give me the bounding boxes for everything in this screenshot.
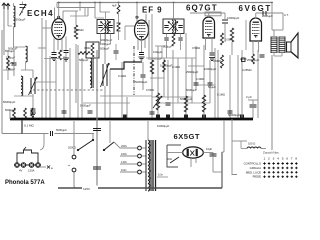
terminal 2 — [21, 163, 26, 168]
svg-text:7: 7 — [291, 157, 293, 161]
wire horizontals mid — [152, 96, 192, 98]
svg-text:10000μμF: 10000μμF — [160, 64, 173, 68]
svg-text:Zoccoli Nos.: Zoccoli Nos. — [263, 151, 280, 155]
capacitor EF9 cathode — [139, 52, 144, 54]
wire — [271, 3, 273, 31]
capacitor 125pF — [12, 62, 17, 64]
wire — [172, 50, 174, 118]
terminal strip bracket — [17, 150, 38, 163]
svg-text:10000μμF: 10000μμF — [157, 124, 170, 128]
small box — [242, 58, 246, 62]
wire — [83, 102, 130, 104]
wire top B+ bus — [57, 2, 272, 4]
wire — [69, 48, 71, 118]
svg-text:0.5MΩ: 0.5MΩ — [146, 88, 154, 92]
wire — [49, 56, 51, 118]
wire — [167, 60, 169, 100]
svg-text:MED. LUCE: MED. LUCE — [246, 170, 261, 174]
ground bus heavy — [10, 118, 253, 121]
solder blob — [240, 115, 244, 119]
svg-text:3: 3 — [273, 157, 275, 161]
wire — [148, 20, 150, 60]
svg-text:A.T.: A.T. — [284, 13, 289, 17]
wire top drops — [79, 3, 81, 12]
wire ECH4 anode leads — [54, 8, 56, 20]
trimmer capacitor 500pF — [20, 4, 26, 6]
svg-text:GRIGLIA: GRIGLIA — [250, 166, 261, 170]
svg-text:120A: 120A — [28, 169, 35, 173]
terminal 3 — [29, 163, 34, 168]
wire — [223, 120, 225, 152]
svg-text:0.05MΩ: 0.05MΩ — [74, 28, 83, 32]
svg-text:0.5MΩ: 0.5MΩ — [213, 59, 221, 63]
wire — [77, 45, 79, 118]
svg-text:140v: 140v — [121, 160, 127, 164]
junction dots on top bus — [58, 2, 60, 4]
capacitor 10000pF coupling — [222, 19, 228, 21]
antenna coil L1 — [14, 6, 16, 16]
wire IFT1 leads — [100, 34, 102, 45]
svg-text:110v: 110v — [121, 168, 127, 172]
svg-text:50000μμF: 50000μμF — [228, 113, 241, 117]
wire — [163, 58, 165, 97]
solder blob — [184, 115, 188, 119]
wire — [245, 20, 247, 50]
variable capacitor tuning gang C1 — [30, 78, 32, 94]
svg-text:16μF: 16μF — [206, 147, 213, 151]
svg-text:Phonola 577A: Phonola 577A — [5, 180, 45, 186]
svg-text:2: 2 — [268, 157, 270, 161]
svg-text:4V: 4V — [19, 169, 23, 173]
wire — [121, 62, 123, 118]
resistor 0.5MΩ — [221, 33, 224, 45]
wire rectifier output — [203, 152, 213, 154]
svg-text:0.1MΩ: 0.1MΩ — [172, 65, 180, 69]
svg-text:500μμF: 500μμF — [163, 45, 173, 49]
resistor 1MΩ — [7, 56, 10, 70]
capacitor — [62, 110, 67, 112]
mains plug — [73, 140, 75, 155]
wire — [173, 3, 175, 21]
svg-text:2000μμF: 2000μμF — [262, 14, 273, 18]
svg-text:300Ω: 300Ω — [84, 46, 91, 50]
capacitor — [114, 50, 119, 52]
resistor 0.05MΩ — [74, 25, 77, 39]
switch — [170, 157, 179, 163]
resistor bias — [59, 50, 62, 60]
wire — [214, 48, 216, 118]
svg-text:0.1MΩ: 0.1MΩ — [217, 93, 225, 97]
wire — [100, 95, 152, 97]
wire 6V6 plate — [255, 13, 257, 19]
wire left border — [1, 30, 3, 134]
wire switch drop — [21, 121, 23, 134]
svg-text:10000μμF: 10000μμF — [204, 67, 217, 71]
wire — [273, 53, 275, 56]
resistor — [163, 60, 166, 72]
wire rectifier box — [167, 145, 178, 167]
resistor — [221, 55, 224, 68]
tube top cap — [58, 16, 60, 18]
wire — [32, 70, 34, 78]
resistor — [13, 108, 16, 118]
wire EF9 pins — [137, 39, 139, 50]
wire — [75, 44, 77, 103]
wire — [237, 55, 239, 118]
wire — [191, 58, 193, 103]
interstage coil — [117, 23, 120, 31]
wire — [209, 60, 211, 103]
svg-text:PIEDE: PIEDE — [253, 175, 262, 179]
wire — [217, 50, 219, 118]
capacitor — [150, 111, 155, 113]
IF can top rect — [205, 12, 221, 16]
svg-text:0.3MΩ: 0.3MΩ — [196, 77, 204, 81]
oscillator coil L3 — [90, 58, 92, 88]
svg-text:0.25MΩ: 0.25MΩ — [242, 68, 251, 72]
capacitor 2000pF tone — [262, 11, 264, 16]
svg-text:0.5MΩ: 0.5MΩ — [192, 46, 200, 50]
tube EF9 V2 — [135, 20, 149, 40]
wire 6V6 pins — [252, 41, 254, 54]
svg-text:6: 6 — [286, 157, 288, 161]
tube 6V6GT V4 — [250, 18, 262, 41]
svg-text:220v: 220v — [121, 144, 127, 148]
wire — [271, 55, 273, 150]
resistor — [31, 108, 34, 118]
svg-text:115V: 115V — [83, 187, 91, 191]
resistor 4uF — [117, 5, 120, 14]
output transformer T3 — [271, 36, 277, 38]
capacitor in mains lead — [93, 128, 101, 130]
svg-text:5000μμF: 5000μμF — [5, 108, 16, 112]
svg-text:EF 9: EF 9 — [142, 6, 163, 15]
solder blob — [156, 115, 160, 119]
capacitor cathode bypass — [52, 52, 57, 54]
wire EF9 leads — [136, 3, 138, 22]
svg-text:100 Ω: 100 Ω — [248, 142, 255, 146]
wire — [257, 50, 259, 118]
svg-text:25000μμF: 25000μμF — [186, 70, 199, 74]
terminal 1 — [15, 163, 20, 168]
wire — [150, 77, 164, 79]
wire 6Q7 grid cap — [208, 13, 210, 17]
capacitor — [93, 166, 101, 168]
capacitor — [194, 82, 199, 84]
wire — [70, 15, 88, 17]
wire — [161, 46, 163, 58]
wire — [126, 97, 128, 118]
mechanical gang link dashed — [33, 89, 104, 91]
solder blob — [166, 115, 170, 119]
IF transformer T1 — [97, 20, 114, 34]
tube ECH4 V1 — [52, 19, 66, 40]
svg-text:1: 1 — [264, 157, 266, 161]
resistor 300Ω — [78, 52, 90, 55]
resistor — [202, 95, 205, 112]
wire — [3, 69, 14, 71]
svg-text:0.1MΩ: 0.1MΩ — [118, 74, 126, 78]
wire — [14, 95, 33, 97]
antenna — [2, 3, 10, 10]
wire — [185, 33, 187, 118]
wire — [36, 81, 56, 83]
wire — [155, 45, 165, 47]
wire — [81, 58, 83, 118]
svg-text:40Ω: 40Ω — [167, 157, 172, 161]
wire — [96, 50, 98, 188]
terminal 4 — [36, 163, 41, 168]
tube top cap — [136, 16, 138, 18]
wire — [209, 12, 225, 14]
wire — [203, 45, 205, 118]
svg-text:100μμF: 100μμF — [153, 50, 163, 54]
svg-text:6,3v: 6,3v — [158, 174, 163, 177]
svg-text:6Q7GT: 6Q7GT — [186, 4, 218, 13]
svg-text:500μμF: 500μμF — [16, 18, 26, 22]
switch tap selector — [104, 142, 114, 150]
capacitor 500pF grid — [64, 50, 69, 52]
RF coil L2 — [21, 76, 23, 96]
wire — [151, 14, 153, 118]
svg-text:ECH4: ECH4 — [27, 9, 54, 18]
wire — [213, 171, 222, 173]
wire — [125, 25, 135, 27]
capacitor 25000pF — [260, 54, 265, 56]
terminal strip base line — [14, 164, 41, 166]
svg-text:500μμF: 500μμF — [100, 46, 110, 50]
svg-text:1500μμF: 1500μμF — [100, 42, 111, 46]
resistor cathode — [252, 54, 255, 64]
wire upper bus segment — [57, 7, 95, 9]
autotransformer winding — [148, 140, 150, 191]
wire — [44, 58, 66, 60]
svg-text:160v: 160v — [121, 152, 127, 156]
autotransformer taps — [120, 147, 138, 149]
svg-text:50000μμF: 50000μμF — [3, 100, 16, 104]
wire antenna leads — [3, 9, 5, 55]
wire — [177, 58, 179, 103]
wire — [195, 46, 197, 90]
svg-text:500μμF: 500μμF — [79, 58, 89, 62]
potentiometer — [156, 93, 159, 110]
svg-text:4μF: 4μF — [112, 4, 117, 8]
wire AVC elbow — [110, 62, 142, 69]
svg-text:2000Ω: 2000Ω — [68, 146, 76, 150]
svg-text:50μμF: 50μμF — [208, 85, 216, 89]
svg-text:0.1 MΩ: 0.1 MΩ — [24, 124, 35, 128]
diode load cluster — [164, 37, 168, 39]
capacitor 50000pF — [141, 74, 146, 76]
variable capacitor oscillator C2 — [102, 64, 104, 86]
svg-text:5: 5 — [282, 157, 284, 161]
wire — [73, 121, 75, 140]
wire drop to strip — [40, 134, 44, 151]
wire — [282, 13, 284, 30]
label 115V — [82, 186, 98, 191]
wire — [84, 8, 86, 17]
svg-text:10000μμF: 10000μμF — [227, 16, 240, 20]
capacitor 2uF electrolytic — [248, 99, 258, 101]
svg-text:6V6GT: 6V6GT — [239, 4, 272, 13]
wire — [109, 69, 111, 118]
AVC line dash-dot — [133, 46, 135, 95]
svg-text:8: 8 — [295, 157, 297, 161]
switch mains — [78, 140, 93, 150]
capacitor — [88, 110, 93, 112]
svg-text:5000μμF: 5000μμF — [56, 128, 67, 132]
wire — [55, 60, 57, 118]
heater tap wire — [157, 176, 168, 178]
IF transformer T2 — [163, 19, 184, 34]
wire — [157, 46, 159, 118]
svg-text:2 μF: 2 μF — [246, 95, 252, 99]
svg-text:4: 4 — [277, 157, 279, 161]
svg-text:25000μμF: 25000μμF — [247, 58, 260, 62]
wire — [241, 50, 243, 118]
solder blob — [123, 115, 127, 119]
svg-text:50000μμF: 50000μμF — [135, 80, 148, 84]
wire — [118, 3, 120, 6]
wire — [229, 55, 231, 118]
wire bottom right corner — [221, 152, 223, 188]
wire ECH4 pin leads — [53, 38, 55, 52]
resistor 0.25MΩ grid leak — [230, 28, 233, 42]
wire grid to tuning — [42, 27, 52, 29]
RF choke secondary — [26, 46, 28, 62]
tube 6X5GT V5 — [183, 147, 204, 158]
resistor — [24, 108, 27, 118]
wire — [14, 46, 26, 48]
resistor 0.5MΩ volume — [150, 60, 153, 74]
capacitor 10000pF — [166, 102, 171, 104]
svg-text:~: ~ — [68, 163, 71, 168]
solder blob — [202, 115, 206, 119]
wire output a — [40, 166, 46, 168]
wire — [196, 84, 215, 86]
capacitor — [208, 82, 213, 84]
wire table connector — [232, 141, 237, 175]
wire — [63, 56, 65, 118]
tube 6Q7GT V3 — [203, 17, 215, 38]
capacitor — [210, 52, 215, 54]
wire bottom line — [58, 187, 222, 189]
wire tone line — [2, 133, 49, 135]
wire — [13, 27, 15, 48]
wire 6Q7 pins — [205, 38, 207, 50]
svg-text:6X5GT: 6X5GT — [174, 132, 201, 141]
resistor — [184, 96, 187, 112]
capacitor 5000pF — [50, 131, 52, 136]
capacitor 16uF — [210, 153, 217, 155]
capacitor — [228, 110, 233, 112]
speaker — [287, 33, 299, 58]
svg-text:CONTROLLO: CONTROLLO — [244, 162, 262, 166]
wire — [190, 158, 192, 167]
oscillator padder box — [86, 42, 99, 58]
socket table dots — [263, 162, 265, 164]
svg-text:5000μμF: 5000μμF — [186, 88, 197, 92]
wire — [9, 110, 11, 119]
wire — [188, 65, 204, 67]
